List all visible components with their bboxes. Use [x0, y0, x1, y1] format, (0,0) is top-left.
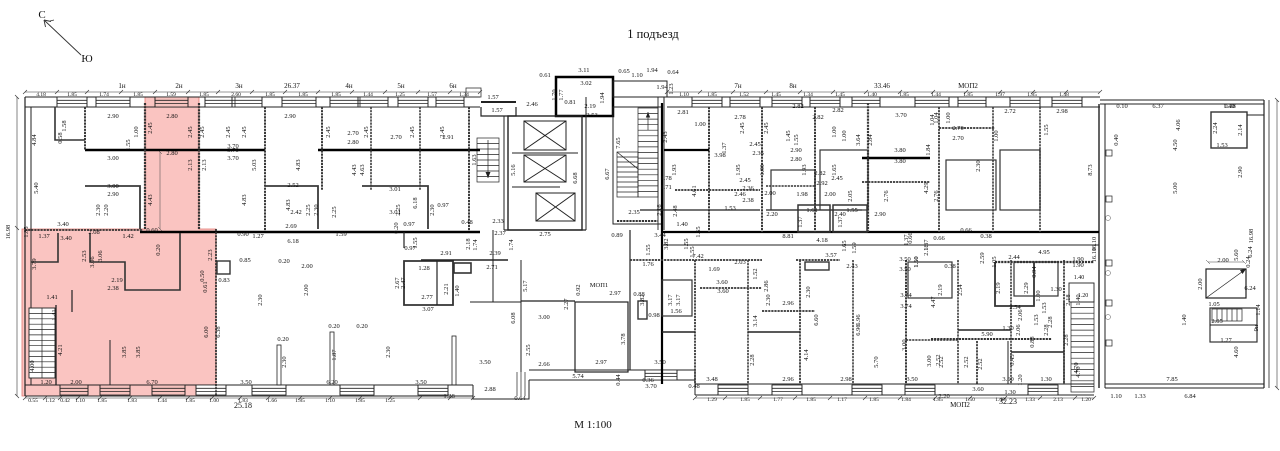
svg-text:2.27: 2.27 [563, 298, 570, 310]
svg-text:2.80: 2.80 [166, 113, 177, 120]
svg-text:3.01: 3.01 [389, 186, 400, 193]
svg-text:1.45: 1.45 [785, 130, 792, 141]
svg-text:2.13: 2.13 [1053, 397, 1063, 403]
corridor walls around core [503, 116, 505, 230]
bath cluster walls middle flat [404, 261, 453, 305]
svg-text:2.45: 2.45 [147, 122, 154, 133]
svg-text:1.10: 1.10 [631, 72, 642, 79]
svg-text:3.00: 3.00 [107, 155, 118, 162]
staircase right wing bottom [1071, 302, 1094, 392]
partition x709 top row [708, 107, 710, 232]
svg-text:1.41: 1.41 [46, 294, 57, 301]
svg-text:2.90: 2.90 [107, 191, 118, 198]
svg-text:2.45: 2.45 [739, 122, 746, 133]
top facade pier lines [57, 97, 1082, 107]
stair return flight [617, 152, 638, 197]
svg-text:2.53: 2.53 [81, 250, 88, 261]
svg-text:0.48: 0.48 [688, 383, 699, 390]
svg-text:4.21: 4.21 [57, 344, 64, 355]
svg-text:32.23: 32.23 [999, 397, 1017, 406]
bottom dimension line [23, 396, 475, 400]
landing wall hatched [617, 220, 658, 222]
svg-text:6.38: 6.38 [215, 326, 222, 337]
vent shafts along corridor wall [1106, 150, 1112, 156]
svg-text:2.45: 2.45 [739, 177, 750, 184]
svg-text:1.85: 1.85 [265, 92, 275, 98]
right outer wall [1263, 100, 1265, 388]
svg-text:26.37: 26.37 [284, 82, 300, 90]
svg-text:М 1:100: М 1:100 [574, 419, 612, 431]
svg-text:1.93: 1.93 [671, 164, 678, 175]
svg-text:2.20: 2.20 [103, 204, 110, 215]
svg-text:1.30: 1.30 [1004, 389, 1015, 396]
svg-text:1.40: 1.40 [676, 221, 687, 228]
svg-text:2.46: 2.46 [526, 101, 538, 108]
svg-text:5.90: 5.90 [981, 331, 992, 338]
svg-text:1.85: 1.85 [23, 226, 30, 237]
svg-text:1.14: 1.14 [1255, 304, 1262, 316]
svg-text:2.60: 2.60 [231, 92, 241, 98]
svg-text:0.83: 0.83 [218, 277, 229, 284]
svg-text:1.65: 1.65 [831, 164, 838, 175]
svg-text:1.27: 1.27 [1220, 337, 1232, 344]
svg-text:2.45: 2.45 [363, 126, 370, 137]
highlighted flat strip (2н) [22, 97, 216, 396]
svg-text:0.42: 0.42 [60, 398, 70, 404]
svg-text:3.00: 3.00 [901, 339, 908, 350]
svg-text:8.81: 8.81 [782, 233, 793, 240]
partition x85 [84, 107, 86, 150]
svg-text:2.70: 2.70 [390, 134, 401, 141]
entrance vestibule bottom outline [473, 380, 529, 399]
svg-text:0.88: 0.88 [1029, 336, 1036, 347]
svg-text:6.08: 6.08 [510, 312, 517, 323]
svg-text:8.73: 8.73 [1087, 164, 1094, 175]
svg-text:1.10: 1.10 [1110, 393, 1121, 400]
svg-text:0.20: 0.20 [278, 258, 289, 265]
svg-text:3.64: 3.64 [855, 134, 862, 146]
svg-text:1.85: 1.85 [67, 92, 77, 98]
svg-text:0.36: 0.36 [642, 377, 654, 384]
svg-text:3.17: 3.17 [667, 294, 674, 306]
svg-text:3.70: 3.70 [645, 383, 656, 390]
svg-text:2.97: 2.97 [609, 290, 621, 297]
right section mid shaft [1206, 269, 1246, 298]
svg-text:1.40: 1.40 [1074, 275, 1085, 281]
partition x420 [419, 107, 421, 190]
svg-text:2.86: 2.86 [763, 280, 770, 292]
svg-text:2.90: 2.90 [284, 113, 295, 120]
svg-text:3.48: 3.48 [706, 376, 717, 383]
svg-text:0.89: 0.89 [611, 232, 622, 239]
bottom facade pier lines [60, 370, 1058, 395]
svg-text:6.24: 6.24 [1244, 285, 1256, 292]
elevator 1 [524, 121, 566, 150]
svg-text:0.40: 0.40 [1113, 134, 1120, 145]
walls row y210 [640, 209, 760, 211]
svg-text:2.29: 2.29 [1023, 282, 1030, 293]
svg-text:1.45: 1.45 [835, 92, 845, 98]
walls row y190 right wing [675, 189, 760, 191]
svg-text:2.81: 2.81 [677, 109, 688, 116]
svg-text:1.70: 1.70 [551, 89, 558, 100]
svg-text:4.29: 4.29 [923, 182, 930, 193]
partition x371 [370, 107, 372, 190]
svg-text:2.30: 2.30 [385, 346, 392, 357]
outer bottom wall middle raised [529, 369, 695, 371]
svg-text:1.28: 1.28 [443, 393, 454, 400]
svg-text:25.18: 25.18 [234, 401, 252, 410]
stair side wall [55, 305, 57, 385]
svg-text:6н: 6н [449, 82, 457, 90]
top dimension line [23, 90, 482, 94]
svg-text:3.60: 3.60 [1002, 376, 1013, 383]
svg-text:1.55: 1.55 [645, 244, 652, 255]
entrance porch outline [466, 88, 481, 97]
stair in highlighted flat [29, 308, 55, 378]
svg-text:1.85: 1.85 [963, 92, 973, 98]
svg-text:0.61: 0.61 [202, 281, 209, 292]
svg-text:1.94: 1.94 [599, 92, 606, 104]
corridor lower wall y260 [630, 259, 762, 261]
svg-text:1.53: 1.53 [1033, 314, 1040, 325]
thin wall x330 [330, 332, 334, 385]
svg-text:2.00: 2.00 [1217, 257, 1228, 264]
svg-text:0.97: 0.97 [437, 202, 449, 209]
svg-text:3.07: 3.07 [422, 306, 434, 313]
svg-text:1.44: 1.44 [157, 398, 167, 404]
svg-text:8н: 8н [789, 82, 797, 90]
svg-text:2.06: 2.06 [1015, 324, 1022, 336]
dimension numbers horizontal set [38, 67, 1256, 402]
svg-text:2.05: 2.05 [847, 190, 854, 201]
svg-text:1.45: 1.45 [771, 92, 781, 98]
svg-text:2.82: 2.82 [812, 114, 823, 121]
rooms second row right wing [662, 331, 695, 333]
svg-text:1.78: 1.78 [660, 175, 671, 182]
svg-text:0.65: 0.65 [618, 68, 629, 75]
compass arrow С-Ю [44, 20, 81, 55]
svg-text:1.74: 1.74 [99, 92, 109, 98]
svg-text:0.20: 0.20 [393, 222, 400, 233]
svg-text:2.05: 2.05 [1211, 318, 1222, 325]
svg-text:1.25: 1.25 [395, 92, 405, 98]
svg-text:0.38: 0.38 [944, 263, 955, 270]
svg-text:1.55: 1.55 [689, 246, 696, 257]
svg-text:1.52: 1.52 [752, 268, 759, 279]
svg-text:2.38: 2.38 [107, 285, 118, 292]
svg-text:6.18: 6.18 [287, 238, 298, 245]
partition x1040 top row [1039, 107, 1041, 232]
svg-text:1.44: 1.44 [363, 92, 373, 98]
wall top edge of highlighted flat [25, 229, 143, 231]
svg-text:1.00: 1.00 [831, 126, 838, 137]
svg-text:4.50: 4.50 [1172, 139, 1179, 150]
svg-text:1.85: 1.85 [869, 397, 879, 403]
svg-text:1.57: 1.57 [491, 107, 503, 114]
svg-text:2.70: 2.70 [952, 125, 963, 132]
svg-text:7н: 7н [734, 82, 742, 90]
wall x1008 lower right wing [1007, 341, 1009, 384]
svg-text:1.30: 1.30 [1040, 376, 1051, 383]
svg-text:2.98: 2.98 [840, 376, 851, 383]
svg-text:3.02: 3.02 [580, 80, 591, 87]
elevator 3 [536, 193, 575, 221]
svg-text:0.66: 0.66 [933, 235, 945, 242]
svg-text:2.30: 2.30 [429, 204, 436, 215]
svg-text:3.40: 3.40 [57, 221, 68, 228]
left outer wall [24, 97, 26, 396]
svg-text:2.00: 2.00 [301, 263, 312, 270]
svg-text:2.52: 2.52 [977, 358, 984, 369]
svg-text:1.40: 1.40 [454, 285, 461, 296]
lift lobby box right wing [1069, 283, 1094, 302]
outer bottom wall band right [694, 370, 696, 395]
svg-text:6.68: 6.68 [572, 172, 579, 183]
bottom facade windows [60, 370, 1058, 395]
svg-text:2.53: 2.53 [586, 112, 597, 119]
svg-text:С: С [38, 9, 45, 21]
svg-text:1.00: 1.00 [209, 398, 219, 404]
svg-text:3.74: 3.74 [900, 303, 912, 310]
svg-text:4.18: 4.18 [816, 237, 827, 244]
svg-text:2.06: 2.06 [1017, 309, 1024, 321]
svg-text:1.40: 1.40 [1181, 314, 1188, 325]
partition x322 [321, 107, 323, 190]
svg-text:1.29: 1.29 [707, 397, 717, 403]
svg-text:6.20: 6.20 [326, 379, 337, 386]
svg-text:1.48: 1.48 [1059, 92, 1069, 98]
svg-text:0.90: 0.90 [237, 231, 248, 238]
svg-text:1.93: 1.93 [801, 164, 808, 175]
svg-text:6.70: 6.70 [146, 379, 157, 386]
thin wall x452 [452, 336, 456, 385]
svg-text:3.00: 3.00 [107, 183, 118, 190]
svg-text:2.45: 2.45 [325, 126, 332, 137]
svg-text:1.59: 1.59 [166, 92, 176, 98]
svg-text:3.14: 3.14 [752, 315, 759, 327]
svg-text:6.84: 6.84 [1184, 393, 1196, 400]
corridor second line y245 [662, 244, 1099, 246]
svg-text:1.37: 1.37 [837, 216, 844, 228]
svg-text:2.19: 2.19 [584, 103, 595, 110]
svg-text:4.47: 4.47 [930, 296, 937, 308]
svg-text:2.45: 2.45 [409, 126, 416, 137]
svg-text:2.45: 2.45 [763, 122, 770, 133]
svg-text:2.28: 2.28 [1043, 324, 1050, 335]
svg-text:1.30: 1.30 [1050, 286, 1061, 293]
svg-text:3.82: 3.82 [639, 294, 646, 305]
svg-text:1.85: 1.85 [295, 398, 305, 404]
svg-text:2.80: 2.80 [790, 156, 801, 163]
svg-text:1.84: 1.84 [901, 397, 911, 403]
svg-text:4.43: 4.43 [351, 164, 358, 175]
svg-text:2.45: 2.45 [439, 126, 446, 137]
svg-text:3.50: 3.50 [479, 359, 490, 366]
svg-text:2.76: 2.76 [933, 190, 940, 202]
partition x868 top row [867, 103, 869, 232]
svg-text:4.83: 4.83 [295, 159, 302, 170]
wall x216 right edge of flat [215, 229, 217, 396]
svg-text:МОП1: МОП1 [590, 282, 608, 289]
svg-text:2.43: 2.43 [662, 131, 669, 142]
svg-text:2.28: 2.28 [749, 354, 756, 365]
svg-text:2.28: 2.28 [1063, 334, 1070, 345]
svg-text:2.00: 2.00 [70, 379, 81, 386]
svg-text:2.91: 2.91 [440, 250, 451, 257]
svg-text:2.18: 2.18 [923, 244, 930, 255]
svg-text:2.21: 2.21 [443, 283, 450, 294]
svg-text:3.17: 3.17 [675, 294, 682, 306]
svg-text:3.78: 3.78 [620, 333, 627, 344]
svg-text:4н: 4н [345, 82, 353, 90]
svg-text:3.50: 3.50 [240, 379, 251, 386]
svg-text:1н: 1н [118, 82, 126, 90]
wall x630 down [629, 230, 631, 370]
svg-text:2.45: 2.45 [749, 141, 760, 148]
partition x265 [264, 107, 266, 232]
svg-text:1.33: 1.33 [1134, 393, 1145, 400]
thin wall 0.20 in big room [277, 345, 281, 385]
small rooms right wing top [771, 170, 815, 210]
svg-text:1.42: 1.42 [122, 233, 133, 240]
svg-text:0.92: 0.92 [575, 284, 582, 295]
svg-text:4.84: 4.84 [31, 134, 38, 146]
svg-text:2.45: 2.45 [225, 126, 232, 137]
svg-text:1.57: 1.57 [427, 92, 437, 98]
bottom row partitions right wing [694, 260, 696, 384]
svg-text:1.94: 1.94 [646, 67, 658, 74]
svg-text:1.63: 1.63 [471, 154, 478, 165]
svg-text:9н: 9н [1253, 324, 1260, 331]
svg-text:1.83: 1.83 [127, 398, 137, 404]
svg-text:1.85: 1.85 [1027, 92, 1037, 98]
svg-text:1.05: 1.05 [1208, 301, 1219, 308]
svg-text:3.50: 3.50 [654, 359, 665, 366]
svg-text:3.50: 3.50 [415, 379, 426, 386]
svg-text:3.79: 3.79 [31, 258, 38, 269]
svg-text:1.55: 1.55 [1043, 124, 1050, 135]
svg-text:2.46: 2.46 [734, 191, 746, 198]
svg-text:1.85: 1.85 [97, 398, 107, 404]
svg-text:1.94: 1.94 [656, 84, 668, 91]
svg-text:3.50: 3.50 [899, 256, 910, 263]
svg-text:1.74: 1.74 [472, 239, 479, 251]
svg-text:1.59: 1.59 [851, 242, 858, 253]
svg-text:3.70: 3.70 [227, 143, 238, 150]
svg-text:2.98: 2.98 [1056, 108, 1067, 115]
svg-text:МОП2: МОП2 [950, 401, 970, 409]
svg-text:2.90: 2.90 [1237, 166, 1244, 177]
svg-text:0.38: 0.38 [980, 233, 991, 240]
svg-text:2.71: 2.71 [486, 264, 497, 271]
svg-text:2.45: 2.45 [199, 126, 206, 137]
svg-text:4.61: 4.61 [691, 185, 698, 196]
svg-text:2.55: 2.55 [525, 344, 532, 355]
svg-text:2.30: 2.30 [95, 204, 102, 215]
svg-text:1.77: 1.77 [773, 397, 783, 403]
svg-text:1.52: 1.52 [739, 92, 749, 98]
svg-text:1.00: 1.00 [694, 121, 705, 128]
svg-text:6.60: 6.60 [813, 314, 820, 325]
bearing wall y150 x664-710 [664, 149, 709, 151]
svg-text:1.84: 1.84 [925, 144, 932, 156]
room 3.00/2.90 walls [85, 186, 140, 229]
svg-text:6.00: 6.00 [203, 326, 210, 337]
svg-text:4.60: 4.60 [1233, 346, 1240, 357]
svg-text:1.04: 1.04 [929, 114, 936, 126]
hatched wall y262 right wing [995, 261, 1094, 263]
svg-text:3.60: 3.60 [972, 386, 983, 393]
outer top wall band right part [667, 96, 1100, 98]
svg-text:1.23: 1.23 [668, 83, 675, 94]
svg-text:1 подъезд: 1 подъезд [627, 27, 679, 41]
svg-text:0.64: 0.64 [667, 69, 679, 76]
vent cross marks [1106, 216, 1111, 320]
svg-text:2.30: 2.30 [975, 160, 982, 171]
svg-text:7.85: 7.85 [1166, 376, 1177, 383]
svg-text:4.70: 4.70 [1075, 366, 1082, 377]
svg-text:16.98: 16.98 [1248, 229, 1255, 244]
svg-text:5.40: 5.40 [33, 182, 40, 193]
svg-text:2.19: 2.19 [111, 277, 122, 284]
elevator dividing walls [512, 152, 578, 154]
svg-text:2.42: 2.42 [290, 209, 301, 216]
svg-text:1.55: 1.55 [846, 207, 857, 214]
svg-text:6.67: 6.67 [604, 168, 611, 180]
svg-text:3.82: 3.82 [663, 238, 670, 249]
svg-text:2.97: 2.97 [595, 359, 607, 366]
svg-text:2.37: 2.37 [494, 230, 506, 237]
svg-text:4.83: 4.83 [241, 194, 248, 205]
svg-text:0.94: 0.94 [1031, 266, 1038, 278]
partition x815 top row [814, 107, 816, 232]
svg-text:16.98: 16.98 [5, 225, 12, 240]
bath small rooms lower right wing [662, 280, 692, 316]
svg-text:3н: 3н [235, 82, 243, 90]
svg-text:2.90: 2.90 [790, 147, 801, 154]
svg-text:2.52: 2.52 [963, 356, 970, 367]
svg-text:2.00: 2.00 [764, 190, 775, 197]
svg-text:2.25: 2.25 [305, 204, 312, 215]
svg-text:0.20: 0.20 [356, 323, 367, 330]
stair arrow small [487, 140, 489, 178]
svg-text:2.76: 2.76 [883, 190, 890, 202]
svg-text:0.20: 0.20 [155, 244, 162, 255]
svg-text:2.13: 2.13 [201, 159, 208, 170]
svg-text:1.25: 1.25 [385, 398, 395, 404]
svg-text:2.14: 2.14 [1237, 124, 1244, 136]
MOP1 vestibule walls [575, 302, 628, 372]
svg-text:2.82: 2.82 [792, 103, 803, 110]
svg-text:2.80: 2.80 [347, 139, 358, 146]
svg-text:1.20: 1.20 [1081, 397, 1091, 403]
bath walls in flat [31, 233, 58, 262]
svg-text:5.16: 5.16 [510, 164, 517, 176]
svg-text:2.08: 2.08 [88, 229, 99, 236]
svg-text:1.30: 1.30 [1002, 325, 1013, 332]
svg-text:2.13: 2.13 [187, 159, 194, 170]
left vertical dimension line [15, 95, 19, 398]
svg-text:1.00: 1.00 [1035, 290, 1042, 301]
svg-text:1.55: 1.55 [695, 226, 702, 237]
svg-text:0.28: 0.28 [1224, 103, 1235, 110]
entrance recess walls [481, 107, 516, 116]
svg-text:0.64: 0.64 [514, 395, 526, 402]
svg-text:3.70: 3.70 [895, 112, 906, 119]
svg-text:0.85: 0.85 [239, 257, 250, 264]
svg-text:2.30: 2.30 [765, 294, 772, 305]
